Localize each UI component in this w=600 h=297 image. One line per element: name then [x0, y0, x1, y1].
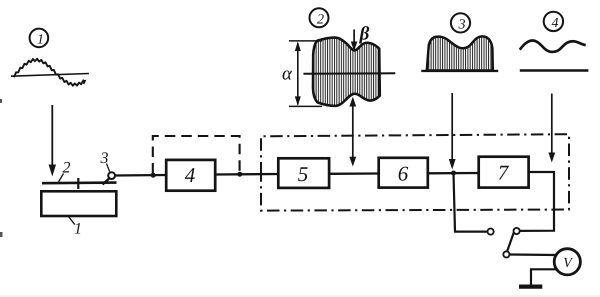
node 1 callout circle (waveform 1): [30, 29, 49, 48]
waveform 4 baseline: [520, 69, 589, 71]
junction dot between 6 and 7: [451, 171, 456, 176]
switch arm: [507, 233, 514, 252]
waveform 3 hatched humps: [427, 36, 493, 70]
beta arrow: [351, 29, 358, 51]
switch pivot contact: [503, 251, 509, 257]
block 5: [278, 158, 329, 188]
junction dot at dashed box right: [237, 172, 242, 177]
svg-text:V: V: [563, 256, 573, 271]
dashed feedback box around block 4: [153, 136, 240, 174]
sensor plate (electrode 2): [42, 181, 117, 184]
switch right throw contact: [514, 228, 520, 234]
scan shadow bottom edge: [0, 295, 600, 297]
wire block4 to block5: [215, 173, 278, 176]
svg-text:2: 2: [317, 13, 324, 28]
label 1 leader: [69, 217, 75, 225]
dash-dot enclosure around blocks 5-7: [261, 134, 569, 210]
alpha dimension extension line bottom: [289, 105, 322, 107]
wire block6 to block7: [428, 172, 479, 175]
waveform 1 noisy sine baseline: [11, 74, 89, 77]
waveform 1 arrow tip: [82, 80, 87, 85]
sensor body block 1: [41, 191, 116, 216]
scan speck left edge a: [0, 99, 2, 103]
scan speck left edge b: [0, 232, 3, 237]
label 2 leader: [59, 174, 64, 183]
svg-text:1: 1: [37, 33, 44, 48]
svg-text:7: 7: [498, 161, 510, 185]
node 2 callout circle (waveform 2): [310, 8, 329, 27]
svg-text:α: α: [282, 64, 293, 85]
voltmeter V: [554, 249, 580, 275]
block 7: [479, 157, 529, 188]
wire pivot to voltmeter: [510, 253, 556, 256]
node 3 callout circle (waveform 3): [451, 13, 470, 32]
arrow from waveform 2 down to wire between 5 and 6: [349, 97, 356, 167]
waveform 2 hatched blob: [313, 38, 380, 106]
block 6: [379, 158, 428, 188]
block 4: [166, 160, 215, 191]
svg-text:3: 3: [458, 18, 466, 33]
junction dot at dashed box left: [151, 173, 156, 178]
ground wire from voltmeter: [531, 269, 557, 285]
arrow from waveform 3 down to junction: [449, 93, 456, 170]
svg-text:5: 5: [298, 162, 309, 186]
waveform 3 baseline: [421, 70, 498, 72]
svg-text:4: 4: [552, 16, 559, 31]
alpha dimension extension line top: [289, 40, 322, 42]
wire from junction 6-7 down to switch left contact: [454, 173, 488, 232]
node 4 callout circle (waveform 4): [544, 12, 563, 31]
svg-text:1: 1: [74, 221, 82, 238]
waveform 4 smooth wave: [520, 40, 586, 51]
svg-text:3: 3: [100, 150, 109, 167]
wire block7 output to corner down: [520, 172, 554, 231]
contact arm from plate to contact 3: [103, 178, 110, 184]
contact 3 circle: [108, 172, 115, 179]
input arrow into sensor: [49, 105, 56, 177]
sensor plate center tick: [77, 178, 79, 189]
wire contact3 to block 4: [115, 174, 167, 177]
svg-text:2: 2: [63, 160, 71, 177]
waveform 1 noisy sine curve: [14, 59, 85, 86]
arrow from waveform 4 down to output wire: [548, 94, 555, 163]
wire block5 to block6: [329, 172, 379, 175]
ground bar: [519, 285, 542, 289]
switch left throw contact: [488, 229, 494, 235]
svg-text:β: β: [359, 24, 370, 45]
svg-text:6: 6: [398, 162, 409, 186]
label 3 leader: [107, 164, 110, 172]
svg-text:4: 4: [185, 163, 196, 187]
alpha dimension double arrow: [295, 42, 301, 106]
waveform 2 centerline: [303, 72, 395, 75]
